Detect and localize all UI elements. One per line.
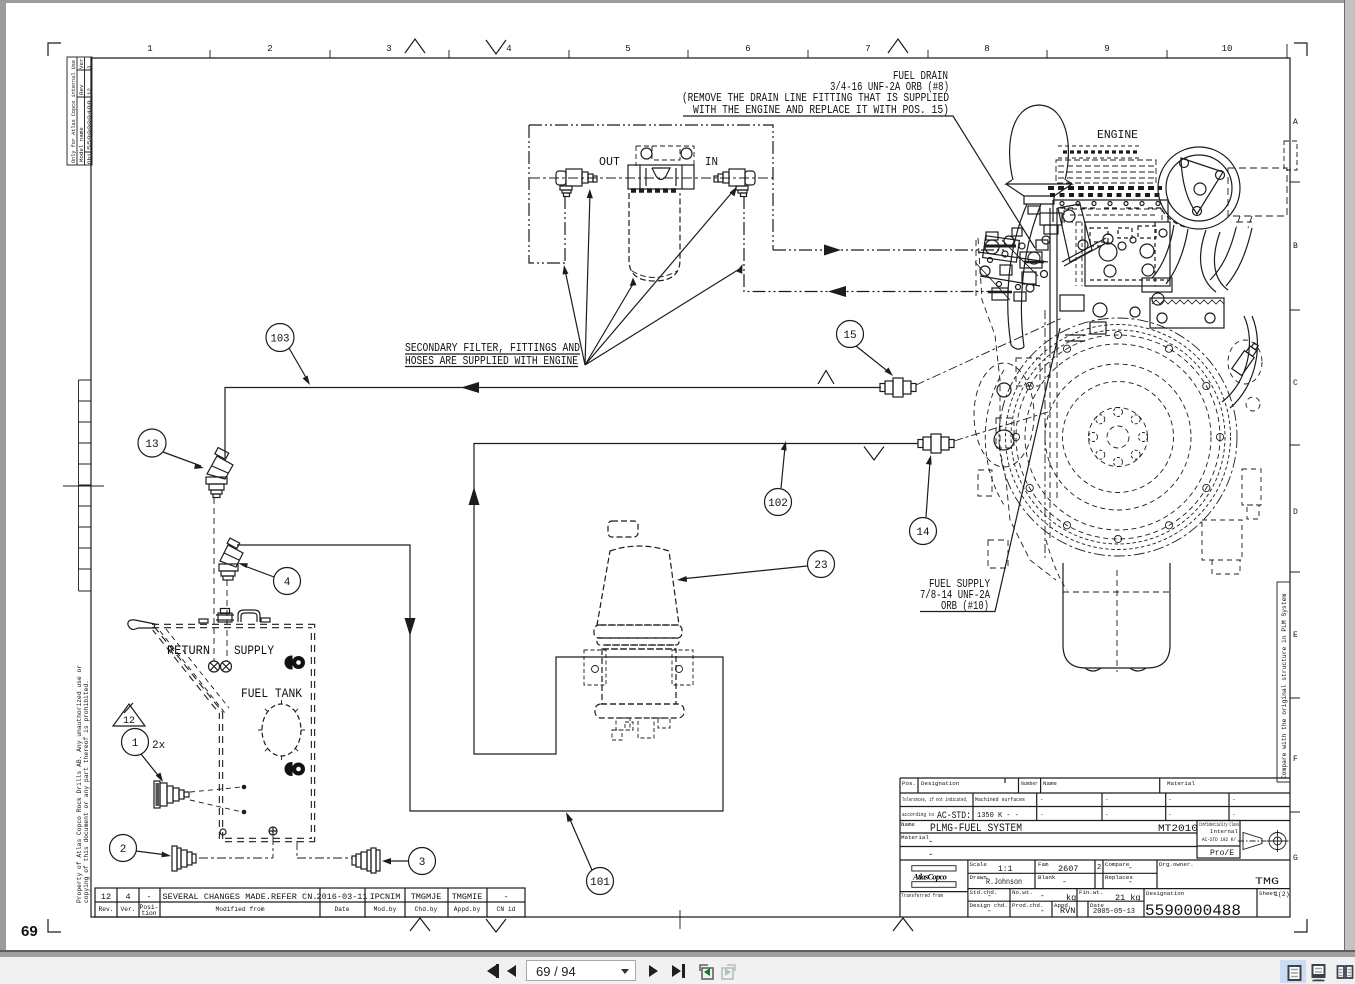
top fold caret up (after 3) <box>405 39 425 53</box>
svg-text:12: 12 <box>123 716 135 727</box>
svg-text:Designation: Designation <box>921 780 959 787</box>
svg-text:kg: kg <box>1066 893 1076 903</box>
centerline through secondary filter <box>530 177 773 179</box>
svg-text:2x: 2x <box>152 740 166 752</box>
tank labels <box>167 644 302 701</box>
svg-text:8: 8 <box>984 44 989 54</box>
top ruler ticks <box>210 44 1287 58</box>
svg-text:Number: Number <box>1021 780 1038 787</box>
balloon 3 <box>382 848 436 875</box>
rocker cover cap strip (dashed) <box>1063 150 1138 153</box>
svg-text:-: - <box>1168 796 1171 803</box>
adapter plate dashed vertical <box>1044 310 1046 558</box>
svg-text:Rev.: Rev. <box>98 906 113 913</box>
exhaust pipes from turbo <box>1142 225 1228 305</box>
svg-text:-: - <box>1232 811 1235 818</box>
svg-text:SECONDARY FILTER, FITTINGS AND: SECONDARY FILTER, FITTINGS AND <box>405 342 580 355</box>
svg-text:Appd.by: Appd.by <box>454 906 481 913</box>
svg-text:1:1: 1:1 <box>998 865 1013 874</box>
svg-text:C: C <box>1293 379 1298 388</box>
toolbar next-view icon (disabled) <box>719 963 737 981</box>
secondary filter head <box>628 148 694 189</box>
tank handle <box>128 620 155 630</box>
top fold caret down (before 4) <box>486 40 506 54</box>
toolbar prev-view icon <box>698 963 716 981</box>
svg-text:13: 13 <box>145 439 158 451</box>
balloon 103 <box>266 324 310 386</box>
svg-text:Pro/E: Pro/E <box>1210 849 1234 858</box>
fuel tank outline <box>152 626 313 840</box>
svg-text:-: - <box>1168 811 1171 818</box>
hose from 14 to engine <box>954 412 1048 441</box>
return/supply bulkhead fittings <box>209 661 232 672</box>
fitting IN elbow <box>714 169 755 197</box>
svg-text:Machined surfaces: Machined surfaces <box>975 796 1025 803</box>
svg-text:Material: Material <box>901 834 929 841</box>
leader dashes from fitting 1 to tank ports <box>190 787 242 812</box>
svg-text:Blank: Blank <box>1038 874 1056 881</box>
balloon 102 <box>765 441 792 516</box>
svg-text:A: A <box>1293 118 1298 127</box>
svg-text:23: 23 <box>814 560 827 572</box>
svg-text:3: 3 <box>86 65 93 69</box>
oil pan <box>1063 563 1170 671</box>
hose from 15 to engine <box>916 318 1062 385</box>
starter and accessories (right side) <box>1202 340 1262 574</box>
toolbar page input <box>526 960 636 981</box>
fitting 14 (straight coupling) <box>918 434 954 453</box>
return hose (dashed) 13 to tank <box>213 498 215 661</box>
note: fuel supply <box>920 578 990 613</box>
intake manifold (dashed) <box>1064 209 1162 222</box>
supply hose (dashed) 4 to tank <box>226 580 228 661</box>
note: secondary filter <box>405 342 580 368</box>
bottom fold caret up <box>410 918 430 931</box>
svg-text:2016-03-11: 2016-03-11 <box>316 892 367 902</box>
cylinder head <box>1053 200 1168 222</box>
svg-text:Obj: Obj <box>86 154 93 164</box>
svg-text:Designation: Designation <box>1146 890 1184 897</box>
svg-text:G: G <box>1293 854 1298 863</box>
svg-text:SEVERAL CHANGES MADE.REFER CN.: SEVERAL CHANGES MADE.REFER CN. <box>163 892 318 902</box>
svg-text:Compare: Compare <box>1105 861 1130 868</box>
title block small labels <box>901 780 1276 909</box>
exhaust outlet flange <box>1150 298 1224 328</box>
drawing frame border <box>91 58 1290 917</box>
svg-text:TMGMJE: TMGMJE <box>411 892 442 902</box>
svg-text:5590000488: 5590000488 <box>86 99 93 150</box>
flywheel <box>985 318 1237 556</box>
svg-text:tion: tion <box>141 910 156 917</box>
engine turbocharger <box>1158 147 1240 229</box>
svg-text:Modified from: Modified from <box>215 906 264 913</box>
svg-text:Name: Name <box>1043 780 1057 787</box>
svg-text:102: 102 <box>768 498 788 510</box>
property note (rotated, left margin) <box>76 665 90 903</box>
top ruler numbers <box>147 44 1232 54</box>
svg-text:copying of this document or an: copying of this document or any part the… <box>83 680 90 903</box>
svg-text:101: 101 <box>590 877 610 889</box>
svg-text:-: - <box>146 892 151 902</box>
svg-text:4: 4 <box>506 44 511 54</box>
engine front silhouette (dashed) <box>976 238 1056 580</box>
svg-text:12: 12 <box>86 88 93 95</box>
svg-text:-: - <box>1128 864 1133 873</box>
balloon 13 <box>138 429 204 469</box>
fuel filter 23 (dashed) <box>594 521 684 718</box>
svg-text:Ver: Ver <box>78 59 85 69</box>
svg-text:1(2): 1(2) <box>1274 891 1290 898</box>
right border fold ticks <box>1290 182 1300 812</box>
fold caret on hose 103 <box>818 371 834 385</box>
toolbar prev-page button <box>507 965 516 977</box>
svg-text:AC-STD 192 K/: AC-STD 192 K/ <box>1202 836 1236 843</box>
svg-text:B: B <box>1293 242 1298 251</box>
view-mode single page (selected) <box>1280 960 1306 983</box>
charge pipe from duct <box>1210 228 1252 286</box>
secondary filter canister (dashed) <box>629 193 680 281</box>
engine intake snorkel <box>1008 204 1041 349</box>
title block <box>900 778 1290 917</box>
svg-text:2: 2 <box>120 844 127 856</box>
svg-text:-: - <box>1040 907 1045 916</box>
filler neck (dashed circle) <box>262 704 301 756</box>
svg-text:AtlasCopco: AtlasCopco <box>912 872 947 882</box>
balloon 23 <box>677 551 835 583</box>
svg-text:according to: according to <box>902 811 934 818</box>
svg-text:ENGINE: ENGINE <box>1097 128 1138 142</box>
flow arrow from engine <box>828 286 846 297</box>
svg-text:1: 1 <box>132 738 139 750</box>
svg-text:R.Johnson: R.Johnson <box>986 877 1022 887</box>
corner bracket top-right <box>1294 43 1307 56</box>
svg-text:-: - <box>987 907 992 916</box>
svg-text:21 kg: 21 kg <box>1115 893 1141 903</box>
fitting 2 (hose barb) <box>172 846 196 871</box>
svg-text:Std.chd.: Std.chd. <box>970 889 998 896</box>
svg-text:6: 6 <box>745 44 750 54</box>
toolbar first-page button <box>487 965 496 977</box>
toolbar last-page button <box>672 965 681 977</box>
svg-text:-: - <box>1128 878 1133 887</box>
svg-text:Pos.: Pos. <box>902 780 916 787</box>
svg-text:-: - <box>1040 811 1043 818</box>
svg-text:69: 69 <box>21 923 38 940</box>
svg-text:Scale: Scale <box>970 861 988 868</box>
secondary filter gasket <box>631 188 679 193</box>
toolbar next-page button <box>649 965 658 977</box>
svg-text:IPCNIM: IPCNIM <box>370 892 401 902</box>
svg-text:Drawn: Drawn <box>970 874 987 881</box>
corner bracket bottom-right <box>1294 919 1307 932</box>
lifting eye icons <box>285 654 306 671</box>
projection symbol circle <box>1267 830 1289 852</box>
engine air cleaner (mushroom) <box>1006 105 1072 204</box>
svg-text:Prod.chd.: Prod.chd. <box>1012 902 1043 909</box>
svg-text:9: 9 <box>1104 44 1109 54</box>
svg-text:10: 10 <box>1222 44 1233 54</box>
front mast verticals <box>1050 208 1057 352</box>
svg-text:-: - <box>1040 796 1043 803</box>
warning triangle 12 <box>113 703 145 727</box>
svg-text:103: 103 <box>271 334 290 346</box>
lifting bracket plate <box>1058 204 1113 266</box>
bottom fold caret down <box>486 919 506 932</box>
svg-text:TMGMIE: TMGMIE <box>452 892 483 902</box>
svg-text:Compare with the original stru: Compare with the original structure in P… <box>1281 594 1288 779</box>
svg-text:-: - <box>1040 892 1045 901</box>
svg-text:D: D <box>1293 508 1298 517</box>
svg-text:WITH THE ENGINE AND REPLACE IT: WITH THE ENGINE AND REPLACE IT WITH POS.… <box>693 104 949 117</box>
corner bracket top-left <box>48 43 61 56</box>
svg-text:1350 K - -: 1350 K - - <box>977 812 1019 820</box>
svg-text:Property of Atlas Copco Rock D: Property of Atlas Copco Rock Drills AB. … <box>76 665 83 903</box>
svg-text:-: - <box>1232 796 1235 803</box>
svg-text:-: - <box>928 850 933 860</box>
svg-text:SUPPLY: SUPPLY <box>234 644 274 658</box>
svg-text:CN id: CN id <box>497 906 516 913</box>
svg-text:1: 1 <box>147 44 152 54</box>
injection pump cluster <box>975 228 1048 301</box>
Atlas Copco logo <box>912 866 956 888</box>
flywheel hub bolts <box>1089 408 1148 467</box>
svg-text:3: 3 <box>419 857 426 869</box>
fuel supply leader <box>920 328 1060 612</box>
flywheel ring bolts <box>1012 331 1223 542</box>
svg-text:3: 3 <box>386 44 391 54</box>
rocker gasket bolt band (dark) <box>1048 186 1162 190</box>
svg-text:4: 4 <box>284 577 291 589</box>
svg-text:-: - <box>1062 878 1067 887</box>
svg-text:15: 15 <box>843 330 856 342</box>
balloon 2 <box>110 835 172 862</box>
svg-text:FUEL TANK: FUEL TANK <box>241 687 302 701</box>
svg-text:OUT: OUT <box>599 156 620 169</box>
svg-text:RETURN: RETURN <box>167 644 210 658</box>
angled bleed fitting <box>1232 341 1261 376</box>
small dashed box at right border <box>1284 141 1297 170</box>
bottom center tick <box>679 910 681 929</box>
svg-text:-: - <box>928 837 933 847</box>
svg-text:Rev: Rev <box>78 84 85 95</box>
corner bracket bottom-left <box>48 919 61 932</box>
turbo air inlet duct (dashed) <box>1228 168 1287 228</box>
fitting 13 (45 deg elbow) <box>206 448 233 498</box>
svg-text:IN: IN <box>705 156 718 169</box>
svg-text:Mod.by: Mod.by <box>374 906 397 913</box>
svg-text:Fam: Fam <box>1038 861 1049 868</box>
svg-text:Material: Material <box>1167 780 1195 787</box>
hose 102 <box>237 444 918 812</box>
note: fuel drain <box>682 70 949 117</box>
svg-text:-: - <box>1105 796 1108 803</box>
svg-text:PLMG-FUEL SYSTEM: PLMG-FUEL SYSTEM <box>930 823 1022 835</box>
svg-text:2: 2 <box>1097 864 1101 872</box>
svg-text:Name: Name <box>901 821 915 828</box>
left border centerline mark <box>63 485 104 487</box>
svg-text:2005-05-13: 2005-05-13 <box>1093 908 1135 916</box>
engine block <box>1060 202 1170 287</box>
balloon 1 with 2x <box>122 729 166 783</box>
fitting 15 (straight coupling) <box>880 378 916 397</box>
fitting 4 (45 deg elbow) <box>219 538 243 580</box>
svg-text:7: 7 <box>865 44 870 54</box>
drain hoses (dash-dot) <box>199 836 352 858</box>
fitting OUT elbow <box>556 169 597 197</box>
rear lifting bracket arc <box>1222 316 1257 408</box>
fan arrows from secondary filter note <box>565 190 741 365</box>
rocker cover (hatched) <box>1056 160 1156 183</box>
fuel drain note leader <box>683 116 1035 248</box>
svg-text:Date: Date <box>334 906 349 913</box>
svg-text:No.wt.: No.wt. <box>1012 889 1033 896</box>
svg-text:-: - <box>987 892 992 901</box>
bottom fold caret up right <box>893 918 913 931</box>
svg-text:Internal: Internal <box>1210 828 1238 835</box>
fitting 3 (hose barb) <box>352 848 380 873</box>
svg-text:Chd.by: Chd.by <box>415 906 438 913</box>
svg-text:Only for Atlas Copco internal: Only for Atlas Copco internal Use <box>70 60 77 163</box>
svg-text:2: 2 <box>267 44 272 54</box>
misc engine details <box>1060 295 1140 341</box>
top-left internal-use mini table <box>67 57 92 165</box>
svg-text:Tolerances, if not indicated,: Tolerances, if not indicated, <box>902 796 968 803</box>
svg-text:RVN: RVN <box>1060 906 1075 916</box>
svg-text:Drg.owner.: Drg.owner. <box>1159 861 1194 868</box>
svg-text:14: 14 <box>916 527 930 539</box>
revision table <box>95 888 525 917</box>
balloon 4 <box>238 563 301 595</box>
svg-text:MT2010: MT2010 <box>1158 823 1198 835</box>
svg-text:2607: 2607 <box>1058 864 1078 874</box>
drain ports <box>220 827 277 835</box>
svg-text:Transferred from: Transferred from <box>901 892 943 899</box>
svg-text:-: - <box>503 892 508 902</box>
left border fold ladder <box>79 380 92 591</box>
svg-text:5: 5 <box>625 44 630 54</box>
balloon 15 <box>837 321 894 377</box>
svg-text:AC-STD:: AC-STD: <box>937 810 971 822</box>
right border letters <box>1293 118 1298 863</box>
svg-text:12: 12 <box>101 892 111 902</box>
svg-text:TMG: TMG <box>1255 876 1279 888</box>
svg-text:4: 4 <box>125 892 130 902</box>
flow arrow to engine <box>824 245 841 256</box>
svg-text:-: - <box>1105 811 1108 818</box>
svg-text:Confidentiality Class: Confidentiality Class <box>1199 821 1239 828</box>
phantom box (engine-supplied parts) <box>529 125 1005 292</box>
svg-text:F: F <box>1293 755 1298 764</box>
compare note strip (right margin, rotated) <box>1277 582 1290 782</box>
svg-text:5590000488: 5590000488 <box>1145 902 1241 920</box>
tank top fittings <box>199 609 270 624</box>
top fold caret up (after 7) <box>888 39 908 53</box>
fitting 1 (hose barb) <box>154 781 189 808</box>
fold caret on hose 102 <box>864 447 884 461</box>
svg-text:E: E <box>1293 631 1298 640</box>
balloon 101 <box>566 812 614 895</box>
front gear cover (dashed) <box>974 358 1040 467</box>
hose 103 <box>225 388 881 459</box>
balloon 14 <box>910 455 937 545</box>
svg-text:Model name: Model name <box>78 127 85 162</box>
svg-text:Fin.wt.: Fin.wt. <box>1079 889 1103 896</box>
secondary filter bracket (dashed) <box>636 146 694 166</box>
projection symbol cone <box>1238 833 1266 850</box>
svg-text:Ver.: Ver. <box>120 906 135 913</box>
